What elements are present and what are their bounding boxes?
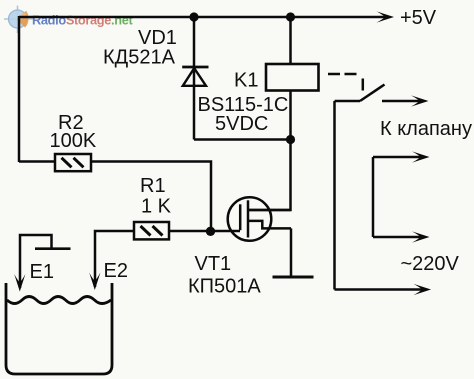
ground [273, 276, 314, 279]
relay K1 coil [266, 64, 319, 91]
wire left rail [18, 16, 21, 162]
node gate junction [206, 227, 215, 236]
wire valve terminal top arrow [373, 151, 430, 162]
svg-text:К клапану: К клапану [380, 118, 472, 140]
wire R1 to gate [169, 230, 240, 233]
water tank [6, 283, 112, 374]
transistor VT1 [228, 197, 291, 241]
svg-text:E1: E1 [30, 261, 54, 283]
node +5V arrow [377, 11, 395, 22]
wire relay coil bottom [289, 91, 292, 140]
resistor R1 [134, 222, 169, 239]
svg-text:5VDC: 5VDC [215, 113, 268, 135]
node junction VD1/relay/drain [286, 135, 295, 144]
wire source to ground [290, 228, 293, 276]
electrode E2 arrow [89, 273, 100, 291]
logo RadioStorage.net [4, 6, 133, 34]
electrode E1 hook [14, 235, 70, 292]
svg-text:E2: E2 [104, 260, 128, 282]
svg-text:~220V: ~220V [401, 253, 460, 275]
svg-text:1 K: 1 K [141, 196, 172, 218]
switch K1.1 [335, 85, 385, 102]
svg-text:R1: R1 [140, 175, 166, 197]
wire relay coil top [289, 17, 292, 64]
wire mains bottom arrow [335, 284, 432, 295]
wire VD1 to relay node [194, 138, 291, 141]
wire valve terminal vertical [372, 157, 375, 237]
svg-text:КД521А: КД521А [103, 47, 176, 69]
relay contact linkage dashed [328, 74, 363, 91]
wire valve terminal bottom arrow [373, 231, 430, 242]
svg-text:RadioStorage.net: RadioStorage.net [32, 13, 133, 28]
node junction top-right (relay) [286, 12, 295, 21]
svg-text:КП501А: КП501А [188, 276, 261, 298]
wire switch output arrow [382, 95, 429, 106]
svg-text:100K: 100K [50, 130, 97, 152]
wire top +5V rail [19, 16, 388, 19]
wire VD1 anode vertical [193, 17, 196, 140]
node junction top-left (VD1 anode) [189, 12, 198, 21]
wire R2 to gate branch [91, 162, 211, 232]
resistor R2 [55, 154, 91, 171]
diode VD1 [182, 67, 208, 86]
wire E2 riser to R1 [95, 231, 134, 287]
wire left rail to R2 [19, 160, 55, 163]
wire relay node to drain [248, 140, 291, 211]
svg-text:VT1: VT1 [195, 253, 232, 275]
svg-text:K1: K1 [234, 70, 258, 92]
svg-text:+5V: +5V [400, 7, 437, 29]
wire switch common down [333, 101, 336, 290]
